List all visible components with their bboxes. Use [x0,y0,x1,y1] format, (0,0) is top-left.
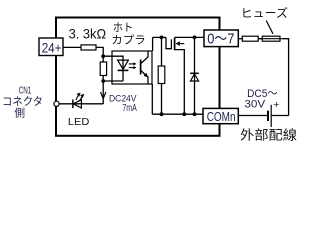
svg-text:LED: LED [68,117,89,128]
indicator LED D2 triangle (pointing left) [73,100,81,108]
svg-text:COMn: COMn [207,109,236,124]
wire resistor R1 to node A corner [96,47,103,56]
wire emitter down to bottom rail [151,84,153,114]
wire battery to right vertical [272,115,289,117]
battery BT1 negative plate (short) [267,111,269,121]
junction dot resistor R3 at bottom rail [160,112,164,116]
MOSFET Q2 body arrow [178,43,185,45]
light coupling arrow 2 [129,67,134,69]
wire node B to photocoupler cathode [103,80,123,82]
wire 0~7 terminal to resistor R4 [238,38,242,40]
photocoupler U1 package box [112,51,152,84]
input wire from CN1 pin through LED to node B [57,103,104,105]
current direction arrowhead (7mA, pointing down) [101,92,106,99]
terminal box COMn [203,108,238,123]
svg-text:ヒューズ: ヒューズ [241,6,289,20]
svg-text:3. 3kΩ: 3. 3kΩ [69,27,107,42]
svg-text:側: 側 [14,107,25,120]
svg-text:+: + [273,99,279,111]
svg-text:30V: 30V [244,99,265,111]
phototransistor Q1 emitter lead with arrow [141,71,148,84]
fuse label pointer line [266,21,273,34]
photocoupler LED cathode bar [118,69,129,71]
photocoupler LED triangle [118,60,129,69]
output wire MOSFET drain to 0~7 terminal [175,36,204,38]
top rail collector to MOSFET gate [153,36,166,38]
node B junction dot [101,79,105,83]
wire node C down to resistor R3 [161,37,163,66]
terminal box 0~7 [204,30,238,47]
wire 24+ terminal to resistor R1 [63,46,81,48]
wire collector up to top rail [152,37,154,51]
diode D1 triangle (pointing up) [190,74,198,81]
wire left vertical node A to node B [102,56,104,104]
node D junction dot (diode branch) [193,36,197,40]
junction dot diode D1 at bottom rail [193,112,197,116]
CN1 pin open circle node [54,101,59,106]
resistor R4 body (external) [242,36,258,41]
indicator LED D2 cathode bar [72,100,74,109]
fuse F1 body with through line [262,36,280,41]
MOSFET Q2 gate lead [166,37,171,48]
svg-text:コネクタ: コネクタ [2,95,43,108]
photocoupler LED lead [122,56,124,82]
phototransistor Q1 base bar [140,60,142,75]
battery BT1 positive plate (long) [270,105,272,127]
wire node A to photocoupler anode [103,55,123,57]
LED D2 emission arrow 1 [76,95,79,100]
svg-text:カプラ: カプラ [111,33,146,46]
svg-text:7mA: 7mA [122,103,137,114]
module frame (PLC interface boundary) [56,18,220,136]
svg-text:外部配線: 外部配線 [240,128,297,143]
diode D1 cathode bar [190,72,199,74]
MOSFET Q2 source lead down to bottom rail [175,50,185,115]
wire COMn terminal to battery [238,115,267,117]
svg-text:CN1: CN1 [19,86,32,97]
LED D2 emission arrow 2 [79,96,82,101]
resistor R1 3.3kOhm body [81,45,96,50]
bottom rail to COMn [152,113,203,115]
wire resistor R3 to bottom rail [161,84,163,115]
phototransistor Q1 collector lead [141,51,148,63]
wire resistor R4 to fuse F1 [258,38,262,40]
wire node D down through diode D1 to bottom rail [194,37,196,114]
svg-text:24+: 24+ [42,40,62,55]
node C junction dot on top rail [160,36,164,40]
MOSFET Q2 channel bar [174,38,176,51]
terminal box 24+ [39,38,63,56]
junction dot MOSFET source at bottom rail [182,112,186,116]
resistor R3 body [158,66,165,84]
resistor R2 body (parallel with photocoupler LED) [100,62,106,76]
node A junction dot [101,54,105,58]
wire fuse to right外部 vertical [283,39,289,116]
light coupling arrow 1 [129,63,134,65]
svg-text:ホト: ホト [113,21,134,34]
svg-text:0〜7: 0〜7 [207,31,234,48]
